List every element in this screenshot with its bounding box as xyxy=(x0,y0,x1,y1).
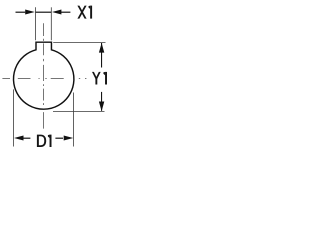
Y1 extension lines xyxy=(53,43,106,112)
D1 extension lines xyxy=(14,89,74,146)
label D1 xyxy=(37,135,52,147)
X1 dimension line with arrows xyxy=(16,11,71,13)
Y1 dimension line with arrows xyxy=(101,43,103,111)
vertical centerline (dash-dot), x=43.7 xyxy=(43,23,45,128)
label X1 xyxy=(77,6,92,19)
D1 dimension line with arrows xyxy=(24,137,64,139)
X1 extension lines xyxy=(36,7,52,40)
horizontal centerline (dash-dot), y=78.8 xyxy=(2,78,86,80)
dimensioned drawing: shaft cross-section (circle with key tab) xyxy=(0,0,154,207)
outline: circle with rectangular tab on top xyxy=(14,42,74,109)
label Y1 xyxy=(92,72,107,85)
